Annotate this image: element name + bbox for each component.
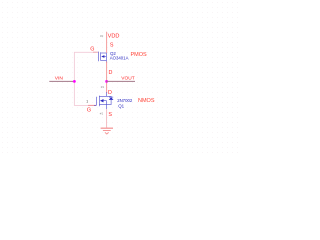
wire VDD vertical from VDD label to PMOS source xyxy=(106,32,108,53)
svg-text:D: D xyxy=(108,90,112,96)
svg-text:VIN: VIN xyxy=(55,76,64,82)
junction VOUT xyxy=(105,80,108,83)
wire NMOS source to ground xyxy=(106,109,108,128)
svg-text:G: G xyxy=(87,108,91,114)
wire NMOS gate pin segment xyxy=(88,104,96,106)
svg-text:1: 1 xyxy=(86,100,88,104)
svg-text:2N7002: 2N7002 xyxy=(117,98,133,103)
ground xyxy=(101,128,113,134)
svg-text:#2: #2 xyxy=(100,34,104,38)
svg-text:NMOS: NMOS xyxy=(138,98,155,104)
wire VOUT horizontal xyxy=(106,80,135,82)
svg-text:#1: #1 xyxy=(100,111,104,115)
svg-text:AO3401A: AO3401A xyxy=(110,56,129,61)
svg-text:S: S xyxy=(110,42,114,48)
wire gate net vertical (VIN to both gates) xyxy=(74,52,96,105)
wire VIN horizontal xyxy=(49,80,74,82)
transistor Q1 NMOS 2N7002 xyxy=(94,92,114,109)
svg-text:VOUT: VOUT xyxy=(121,76,134,82)
svg-text:PMOS: PMOS xyxy=(131,52,148,58)
wire PMOS gate pin segment xyxy=(93,51,98,53)
svg-text:G: G xyxy=(90,47,94,53)
junction VIN gate net xyxy=(73,80,76,83)
transistor Q2 PMOS AO3401A xyxy=(99,52,107,63)
svg-text:Q1: Q1 xyxy=(118,103,124,108)
svg-text:#1: #1 xyxy=(101,85,105,89)
svg-text:D: D xyxy=(109,70,113,76)
svg-text:VDD: VDD xyxy=(108,33,120,39)
svg-text:S: S xyxy=(108,112,112,118)
wire PMOS drain down through VOUT junction to NMOS drain xyxy=(106,62,108,94)
